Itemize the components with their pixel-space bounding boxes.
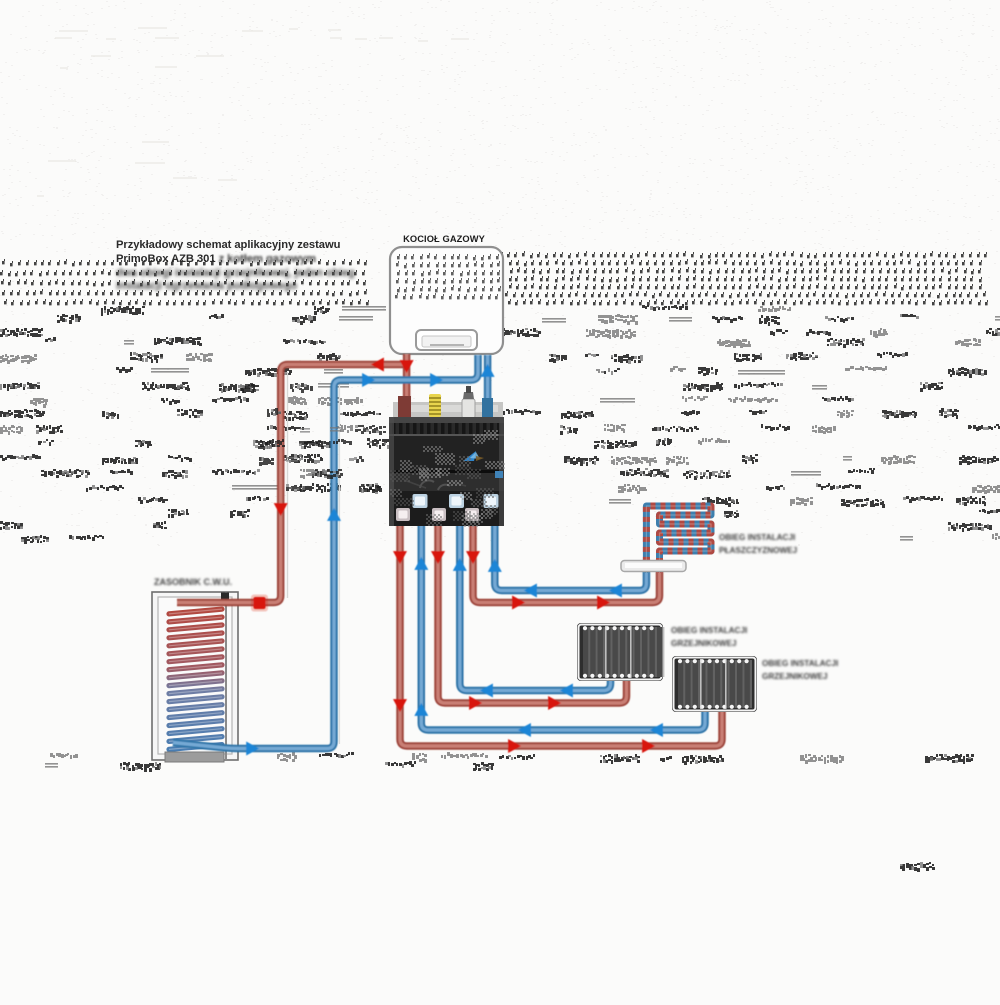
svg-text:PrimoBox AZB 301 z kotłem gazo: PrimoBox AZB 301 z kotłem gazowym xyxy=(116,253,316,265)
arrow red down at boiler outlet xyxy=(400,360,414,373)
arrow red right xyxy=(469,696,482,710)
wire blue tank return to boiler xyxy=(173,355,478,749)
arrow blue up xyxy=(453,558,467,571)
svg-text:GRZEJNIKOWEJ: GRZEJNIKOWEJ xyxy=(762,672,828,681)
hot water tank body xyxy=(152,592,238,760)
svg-text:OBIEG INSTALACJI: OBIEG INSTALACJI xyxy=(719,533,795,542)
arrow red right xyxy=(597,596,610,610)
scatter noise rows xyxy=(0,304,1000,872)
arrow blue left xyxy=(650,723,663,737)
tank base xyxy=(165,752,224,762)
yellow hose xyxy=(429,394,441,417)
arrow blue up xyxy=(488,559,502,572)
boiler display panel xyxy=(416,330,477,350)
arrow blue left xyxy=(609,584,622,598)
svg-text:ZASOBNIK C.W.U.: ZASOBNIK C.W.U. xyxy=(154,577,232,587)
arrow red right xyxy=(508,739,521,753)
arrow red left xyxy=(371,358,384,372)
wire red supply floor heating xyxy=(473,523,660,603)
arrow red right xyxy=(642,739,655,753)
wire red supply radiator circuit 1 xyxy=(438,523,627,703)
arrow blue left xyxy=(524,584,537,598)
label OBIEG INSTALACJI PLASZCZYZNOWEJ (blurred) xyxy=(719,533,797,555)
arrow red down on tank supply riser xyxy=(274,503,288,516)
faint guide line xyxy=(287,372,289,598)
arrow blue left xyxy=(518,723,531,737)
arrow red right xyxy=(512,596,525,610)
arrow blue up on tank return riser xyxy=(327,508,341,521)
svg-text:PŁASZCZYZNOWEJ: PŁASZCZYZNOWEJ xyxy=(719,546,797,555)
arrow blue left xyxy=(480,684,493,698)
svg-text:GRZEJNIKOWEJ: GRZEJNIKOWEJ xyxy=(671,639,737,648)
arrow red down xyxy=(393,699,407,712)
arrow blue up xyxy=(414,557,428,570)
svg-text:dwa obiegi instalacji grzejnik: dwa obiegi instalacji grzejnikowej, jede… xyxy=(116,267,355,279)
arrow blue right xyxy=(246,742,259,756)
arrow blue left xyxy=(560,684,573,698)
wire blue return radiator circuit 2 xyxy=(421,523,705,730)
AFRISO logo mark xyxy=(463,451,476,461)
arrow blue right toward boiler xyxy=(362,373,375,387)
radiator 2 xyxy=(672,656,757,712)
label OBIEG INSTALACJI GRZEJNIKOWEJ 1 (blurred) xyxy=(671,626,747,648)
svg-text:instalacji ogrzewania podłogow: instalacji ogrzewania podłogowego xyxy=(116,280,298,292)
wire blue return radiator circuit 1 xyxy=(460,523,611,691)
svg-text:OBIEG INSTALACJI: OBIEG INSTALACJI xyxy=(762,659,838,668)
svg-text:Przykładowy schemat aplikacyjn: Przykładowy schemat aplikacyjny zestawu xyxy=(116,239,341,251)
arrow red down xyxy=(431,551,445,564)
PrimoBox manifold unit xyxy=(389,386,505,527)
arrow blue up xyxy=(414,703,428,716)
red valve block on tank inlet xyxy=(254,597,266,609)
radiator 1 xyxy=(577,623,663,681)
gas boiler body xyxy=(390,247,503,354)
arrow red right xyxy=(548,696,561,710)
svg-text:KOCIOŁ GAZOWY: KOCIOŁ GAZOWY xyxy=(403,234,486,244)
wire red supply radiator circuit 2 xyxy=(400,523,722,746)
gray cylinder xyxy=(462,399,475,418)
wire blue manifold return to boiler xyxy=(484,355,492,421)
label OBIEG INSTALACJI GRZEJNIKOWEJ 2 (blurred) xyxy=(762,659,838,681)
wire blue return floor heating xyxy=(495,523,647,591)
arrow red down xyxy=(466,551,480,564)
floor heating manifold bar xyxy=(621,561,686,572)
arrow red down xyxy=(393,551,407,564)
floor heating serpentine coil xyxy=(646,506,711,573)
arrow blue right mid xyxy=(430,373,443,387)
tank heating coil xyxy=(169,609,222,749)
svg-text:OBIEG INSTALACJI: OBIEG INSTALACJI xyxy=(671,626,747,635)
wire red boiler supply down to manifold xyxy=(403,354,411,421)
dense dither band right xyxy=(390,251,988,305)
arrow blue up into boiler xyxy=(481,364,495,377)
noise overlay on pipes xyxy=(240,383,386,492)
tank inner corner block xyxy=(221,593,229,600)
dense dither band left xyxy=(0,259,369,305)
wire red supply to tank xyxy=(177,365,407,603)
